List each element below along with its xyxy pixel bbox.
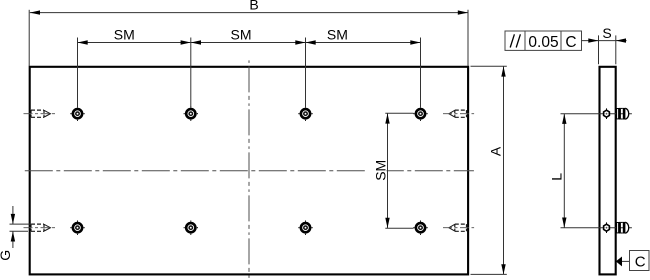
dimension S right arrow	[616, 38, 626, 42]
plate outline main view	[30, 67, 468, 275]
svg-text:C: C	[635, 254, 646, 271]
hidden side hole left bottom	[24, 224, 57, 231]
datum C box	[630, 251, 650, 271]
svg-text:SM: SM	[327, 27, 348, 43]
parallelism symbol	[510, 34, 520, 47]
svg-text:B: B	[249, 0, 258, 13]
dimension B arrows	[30, 10, 40, 14]
SM top arrows	[78, 40, 88, 44]
svg-text:A: A	[487, 146, 503, 156]
dimension A line	[503, 66, 505, 274]
side view hole centerline bottom	[561, 227, 632, 229]
horizontal centerline main view	[25, 170, 474, 172]
dimension SM vertical line	[387, 113, 389, 228]
hole H4 top row	[413, 107, 427, 121]
datum C triangle	[616, 257, 622, 267]
screw head top	[617, 108, 629, 120]
hidden side hole right bottom	[443, 224, 474, 231]
dimension S line	[599, 40, 616, 42]
datum C leader	[622, 260, 630, 262]
dimension L arrows	[562, 114, 566, 124]
hole H3 top row	[298, 107, 312, 121]
hole H6 bottom row	[184, 221, 198, 235]
dimension L line	[563, 114, 565, 228]
svg-text:L: L	[548, 173, 564, 181]
vertical centerline main view	[248, 60, 250, 279]
side view hole centerline top	[561, 113, 632, 115]
svg-text:S: S	[602, 25, 611, 41]
SM vertical arrows	[385, 113, 389, 123]
FCF leader with arrow	[582, 40, 599, 42]
screw head bottom	[617, 222, 629, 234]
hole H7 bottom row	[298, 221, 312, 235]
hidden side hole left top	[24, 110, 57, 117]
svg-text:SM: SM	[373, 160, 389, 181]
svg-text:SM: SM	[114, 27, 135, 43]
dimension A extension lines	[471, 65, 507, 67]
SM vertical extension lines	[385, 112, 413, 114]
dimension G upper leg	[12, 206, 14, 224]
side view hole circle top	[604, 108, 610, 119]
hole H8 bottom row	[413, 221, 427, 235]
svg-text:C: C	[565, 34, 576, 51]
hole H5 bottom row	[70, 221, 84, 235]
hidden side hole right top	[443, 110, 474, 117]
dimension G extension lines	[10, 223, 33, 225]
dimension S extension lines	[598, 35, 600, 64]
hole H2 top row	[184, 107, 198, 121]
side view outline	[600, 67, 616, 275]
label SM vertical background mask	[368, 155, 387, 185]
dimension B extension lines	[28, 10, 30, 66]
dimension A arrows	[501, 66, 505, 76]
side view hole circle bottom	[604, 222, 610, 233]
feature control frame	[505, 31, 582, 50]
SM top extension lines	[77, 38, 79, 108]
svg-text:G: G	[0, 250, 13, 261]
dimension G lower leg	[12, 231, 14, 248]
svg-text:0.05: 0.05	[528, 34, 558, 51]
dimension SM top line	[78, 42, 421, 44]
hole H1 top row	[70, 107, 84, 121]
svg-text:SM: SM	[231, 27, 252, 43]
dimension B line	[30, 12, 468, 14]
